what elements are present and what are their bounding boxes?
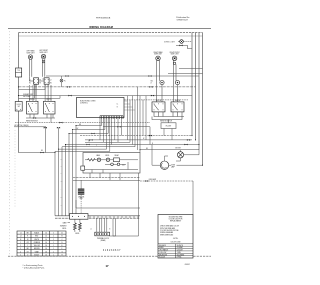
svg-text:L2: L2 bbox=[20, 236, 22, 238]
svg-text:OVEN: OVEN bbox=[171, 164, 175, 166]
receptacle right front bbox=[173, 62, 175, 64]
bottom dashed rule bbox=[8, 255, 158, 257]
svg-text:P2: P2 bbox=[40, 82, 42, 84]
wire: distribution row 2 bbox=[85, 141, 130, 143]
svg-text:14: 14 bbox=[45, 239, 47, 241]
svg-text:SURF. UNIT: SURF. UNIT bbox=[154, 54, 162, 56]
oven light lamp and label bbox=[164, 40, 183, 44]
wire: lamp leads bbox=[152, 145, 203, 166]
relay lower contacts bbox=[111, 163, 114, 166]
svg-text:Y: Y bbox=[27, 245, 28, 247]
svg-text:RED: RED bbox=[35, 236, 38, 238]
wire: oven light to right bundle bbox=[178, 41, 192, 43]
wire: row left lower bbox=[14, 126, 46, 128]
svg-text:H: H bbox=[61, 255, 62, 257]
indicator light right front bbox=[175, 81, 179, 85]
switch: left rear surface unit switch bbox=[29, 78, 39, 85]
wire: into left switch boxes bbox=[29, 84, 51, 101]
switch: right rear surface unit switch bbox=[152, 100, 165, 112]
wire: center bundle bbox=[55, 126, 76, 216]
switch: left front surface switch bbox=[44, 99, 56, 114]
wire: left rear element leads bbox=[29, 59, 32, 77]
switch: left rear surface switch bbox=[27, 99, 39, 114]
connector on row right lamp bbox=[187, 139, 190, 141]
svg-text:GY: GY bbox=[27, 251, 29, 253]
switch: left front surface unit switch bbox=[44, 78, 52, 85]
wire: mid connector wire y208 bbox=[76, 200, 140, 208]
svg-text:E: E bbox=[62, 245, 63, 247]
svg-text:RIGHT FRONT: RIGHT FRONT bbox=[170, 52, 180, 54]
svg-text:R: R bbox=[61, 173, 62, 175]
svg-text:Y: Y bbox=[96, 145, 97, 147]
wire: bottom rail 2 bbox=[55, 217, 140, 219]
svg-text:W-WHITE: W-WHITE bbox=[177, 245, 183, 247]
svg-text:ELEMENT: ELEMENT bbox=[60, 225, 67, 227]
svg-text:BROIL: BROIL bbox=[62, 228, 66, 230]
wire: below left switch boxes bbox=[26, 117, 55, 119]
junction blob 2 bbox=[57, 127, 60, 129]
wire: left vertical rail bbox=[19, 33, 56, 153]
svg-text:16: 16 bbox=[45, 245, 47, 247]
svg-text:BK: BK bbox=[61, 159, 63, 161]
svg-text:SWITCH: SWITCH bbox=[29, 99, 34, 101]
wire: comb feeds bbox=[97, 208, 139, 236]
svg-text:BR-BROWN: BR-BROWN bbox=[159, 254, 167, 256]
aux contact rect bbox=[114, 158, 120, 162]
wire: relay box internal rail bbox=[85, 160, 138, 165]
svg-text:16: 16 bbox=[45, 251, 47, 253]
svg-text:SWITCH: SWITCH bbox=[156, 100, 161, 102]
surface element left rear bbox=[27, 50, 35, 60]
svg-text:16: 16 bbox=[45, 248, 47, 250]
svg-text:N: N bbox=[109, 229, 110, 231]
wire: distribution row 3 bbox=[66, 144, 200, 146]
svg-text:DOOR: DOOR bbox=[17, 104, 21, 106]
svg-text:BROWN: BROWN bbox=[34, 248, 40, 250]
wire: switch interconnects left bbox=[29, 77, 48, 99]
wire: fan row a bbox=[76, 125, 102, 127]
svg-text:SIG: SIG bbox=[151, 81, 153, 83]
surface element right front bbox=[170, 52, 180, 61]
svg-text:C: C bbox=[61, 239, 62, 241]
wire: lower run 1 bbox=[73, 177, 140, 179]
table text bbox=[20, 232, 64, 257]
connector on row 1 right bbox=[149, 135, 152, 137]
svg-text:* = Non-Illustrated Parts: * = Non-Illustrated Parts bbox=[23, 267, 45, 270]
resistor in relay box bbox=[88, 159, 96, 161]
svg-text:P1: P1 bbox=[40, 80, 42, 82]
wire: lower run 2 bbox=[73, 179, 140, 181]
svg-text:H1: H1 bbox=[29, 82, 31, 84]
wire: distribution row 4 bbox=[62, 146, 135, 148]
svg-text:LT: LT bbox=[151, 82, 153, 84]
relay coil 1 bbox=[97, 158, 100, 161]
bake element coil bbox=[74, 223, 77, 230]
svg-text:N: N bbox=[20, 239, 21, 241]
svg-text:L1: L1 bbox=[20, 233, 22, 235]
wire: left short feeders bbox=[19, 90, 61, 99]
svg-text:SURF. UNIT: SURF. UNIT bbox=[40, 52, 48, 54]
wire color code table bbox=[17, 231, 66, 256]
svg-text:YELLOW: YELLOW bbox=[34, 245, 41, 247]
svg-text:14: 14 bbox=[45, 236, 47, 238]
surface element right rear bbox=[154, 51, 163, 61]
svg-text:CONTROL: CONTROL bbox=[80, 103, 88, 105]
surface element left front bbox=[39, 50, 48, 59]
svg-text:Y-YELLOW: Y-YELLOW bbox=[159, 252, 167, 254]
oven door switch on left rail bbox=[15, 102, 22, 112]
svg-text:FEF365BGDB: FEF365BGDB bbox=[96, 17, 111, 19]
svg-text:COLOR CODE: COLOR CODE bbox=[170, 242, 180, 244]
pilot lamp left cluster bbox=[60, 79, 63, 82]
svg-text:BK: BK bbox=[27, 233, 29, 235]
EOC pin header comb bbox=[100, 116, 123, 119]
receptacle left front bbox=[42, 60, 44, 62]
svg-text:MOTOR: MOTOR bbox=[175, 148, 180, 150]
indicator light right rear bbox=[151, 81, 165, 85]
wire: right bundle line 3 bbox=[198, 33, 200, 150]
junction dots bbox=[18, 86, 203, 165]
svg-text:WHEN SERVICING: WHEN SERVICING bbox=[160, 234, 174, 236]
terminal block connector bbox=[95, 232, 110, 242]
svg-text:OR: OR bbox=[27, 242, 29, 244]
wire: right short feeders bbox=[168, 69, 203, 74]
svg-text:SURF. UNIT: SURF. UNIT bbox=[171, 54, 179, 56]
svg-text:14: 14 bbox=[45, 233, 47, 235]
svg-text:INFINITE SWITCH: INFINITE SWITCH bbox=[26, 120, 38, 122]
oven relay box bbox=[81, 153, 140, 174]
wire: EOC right side bundle bbox=[128, 87, 147, 153]
svg-text:LEFT FRONT: LEFT FRONT bbox=[39, 50, 48, 52]
svg-text:L1: L1 bbox=[117, 104, 119, 106]
svg-text:WIRING DIAGRAM: WIRING DIAGRAM bbox=[89, 25, 113, 29]
rail tick marks bbox=[90, 216, 138, 218]
svg-text:BK: BK bbox=[146, 148, 148, 150]
ground chassis symbol bbox=[78, 189, 84, 201]
svg-text:OR: OR bbox=[61, 181, 63, 183]
wire gauge tick labels on bundle bbox=[61, 159, 63, 207]
svg-text:BROIL: BROIL bbox=[75, 233, 79, 235]
svg-text:ELECTRONIC OVEN: ELECTRONIC OVEN bbox=[80, 100, 96, 102]
notes and color code box bbox=[158, 215, 193, 259]
wire: top supply rail bbox=[19, 32, 203, 34]
junction blob 1 bbox=[44, 127, 47, 129]
svg-text:BR: BR bbox=[61, 197, 63, 199]
wire: lamp feed lower dashed bbox=[140, 180, 193, 182]
wire: bus C bbox=[19, 95, 193, 97]
wire: bus D dashed bbox=[93, 99, 188, 101]
junction dots on bundle bbox=[58, 149, 59, 150]
svg-text:316230637: 316230637 bbox=[103, 250, 121, 252]
wire: fan row c bbox=[69, 133, 108, 135]
wire: distribution row 7 bbox=[55, 150, 110, 152]
svg-text:F: F bbox=[62, 248, 63, 250]
svg-text:BROIL: BROIL bbox=[106, 155, 110, 157]
svg-text:PL: PL bbox=[64, 80, 66, 82]
svg-text:COLORS SHOWN ON THE: COLORS SHOWN ON THE bbox=[160, 230, 179, 232]
small rect on box left edge bbox=[81, 166, 85, 170]
svg-text:P-PINK: P-PINK bbox=[177, 257, 182, 259]
wire: bottom rail 1 bbox=[55, 215, 140, 217]
wire: drop to lower right bbox=[192, 181, 194, 215]
wire: below right switches bbox=[152, 112, 184, 120]
svg-text:N: N bbox=[117, 107, 118, 109]
connector on row 3 right bbox=[184, 144, 187, 146]
electronic oven control (clock) bbox=[77, 98, 125, 118]
wire: distribution row 5 bbox=[59, 148, 107, 150]
svg-text:COLOR CODE FOR: COLOR CODE FOR bbox=[169, 219, 184, 221]
wire: motor leads bbox=[176, 150, 199, 161]
svg-text:TCO: TCO bbox=[17, 70, 20, 72]
svg-text:R-RED: R-RED bbox=[159, 247, 163, 249]
svg-text:WHITE: WHITE bbox=[34, 239, 39, 241]
svg-text:-NOTE-: -NOTE- bbox=[173, 238, 179, 240]
svg-text:GY: GY bbox=[61, 205, 63, 207]
wire: distribution row 1 bbox=[85, 139, 192, 141]
svg-text:R: R bbox=[27, 236, 28, 238]
svg-text:BK: BK bbox=[41, 150, 43, 152]
svg-text:D: D bbox=[61, 242, 62, 244]
wire: ground drop bbox=[80, 195, 82, 216]
svg-text:V-VIOLET: V-VIOLET bbox=[177, 250, 183, 252]
svg-text:L1: L1 bbox=[90, 229, 92, 231]
wire: drops from label rows bbox=[30, 114, 59, 153]
wire: page border dashed left bbox=[14, 130, 16, 208]
svg-text:B: B bbox=[62, 236, 63, 238]
wire: right indicator leads bbox=[157, 80, 178, 102]
svg-text:SURF. UNIT: SURF. UNIT bbox=[27, 52, 35, 54]
terminal block small box bbox=[70, 214, 89, 220]
svg-text:17: 17 bbox=[105, 264, 109, 268]
broil element coil bbox=[79, 223, 82, 230]
row end connectors and labels bbox=[89, 139, 92, 141]
wire: L1 top run bbox=[19, 35, 203, 37]
wire: right front element leads bbox=[173, 60, 176, 79]
switch: right front surface unit switch bbox=[171, 100, 184, 112]
wire: right bundle line 4 bbox=[202, 33, 204, 166]
wire: right rear element leads bbox=[157, 60, 160, 79]
page border faint left bbox=[9, 31, 11, 255]
door latch assembly box bbox=[161, 123, 176, 129]
wire: bus A bbox=[46, 75, 199, 77]
wire: fan row b bbox=[73, 129, 105, 131]
wire: oven light lower link bbox=[176, 45, 192, 48]
svg-text:5995375547: 5995375547 bbox=[177, 19, 189, 21]
svg-text:SWITCH: SWITCH bbox=[175, 100, 180, 102]
wire: dashed row left bbox=[15, 122, 150, 124]
svg-text:HI-LIMIT: HI-LIMIT bbox=[166, 126, 172, 128]
wire: coil leads bbox=[68, 219, 80, 232]
svg-text:SUGGESTED WIRE: SUGGESTED WIRE bbox=[169, 217, 183, 219]
wire: relay box second rail bbox=[85, 162, 138, 173]
wire: relay box feet bbox=[81, 173, 138, 208]
wire: distribution row 6 bbox=[80, 135, 192, 137]
header rule bbox=[8, 28, 211, 30]
latch motor symbol bbox=[175, 148, 183, 158]
connector on rail wire bbox=[40, 152, 43, 154]
svg-text:OR: OR bbox=[88, 141, 90, 143]
wire: hi-limit leads bbox=[164, 120, 172, 140]
svg-text:09/02: 09/02 bbox=[185, 264, 191, 266]
svg-text:16: 16 bbox=[45, 242, 47, 244]
wire: right bundle line 2 bbox=[195, 33, 197, 140]
relay coil 2 bbox=[106, 158, 109, 161]
svg-text:BL-BLUE: BL-BLUE bbox=[159, 257, 165, 259]
svg-text:OVEN LIGHT: OVEN LIGHT bbox=[164, 41, 175, 43]
wire: left front element leads bbox=[42, 59, 45, 77]
svg-text:GN-GREEN: GN-GREEN bbox=[177, 254, 185, 256]
oven lamp lower bbox=[160, 161, 175, 169]
thermal limiter on left rail bbox=[16, 68, 22, 77]
svg-text:INFINITE SWITCH: INFINITE SWITCH bbox=[160, 120, 172, 122]
svg-text:H2: H2 bbox=[50, 82, 52, 84]
wire: cross row to right bbox=[103, 127, 150, 145]
wire: right bundle line 1 bbox=[191, 33, 193, 136]
svg-text:DLB: DLB bbox=[122, 164, 125, 166]
wire: EOC pin drops bbox=[100, 119, 121, 151]
svg-text:BR: BR bbox=[27, 248, 29, 250]
wire: bus B bbox=[19, 86, 196, 88]
